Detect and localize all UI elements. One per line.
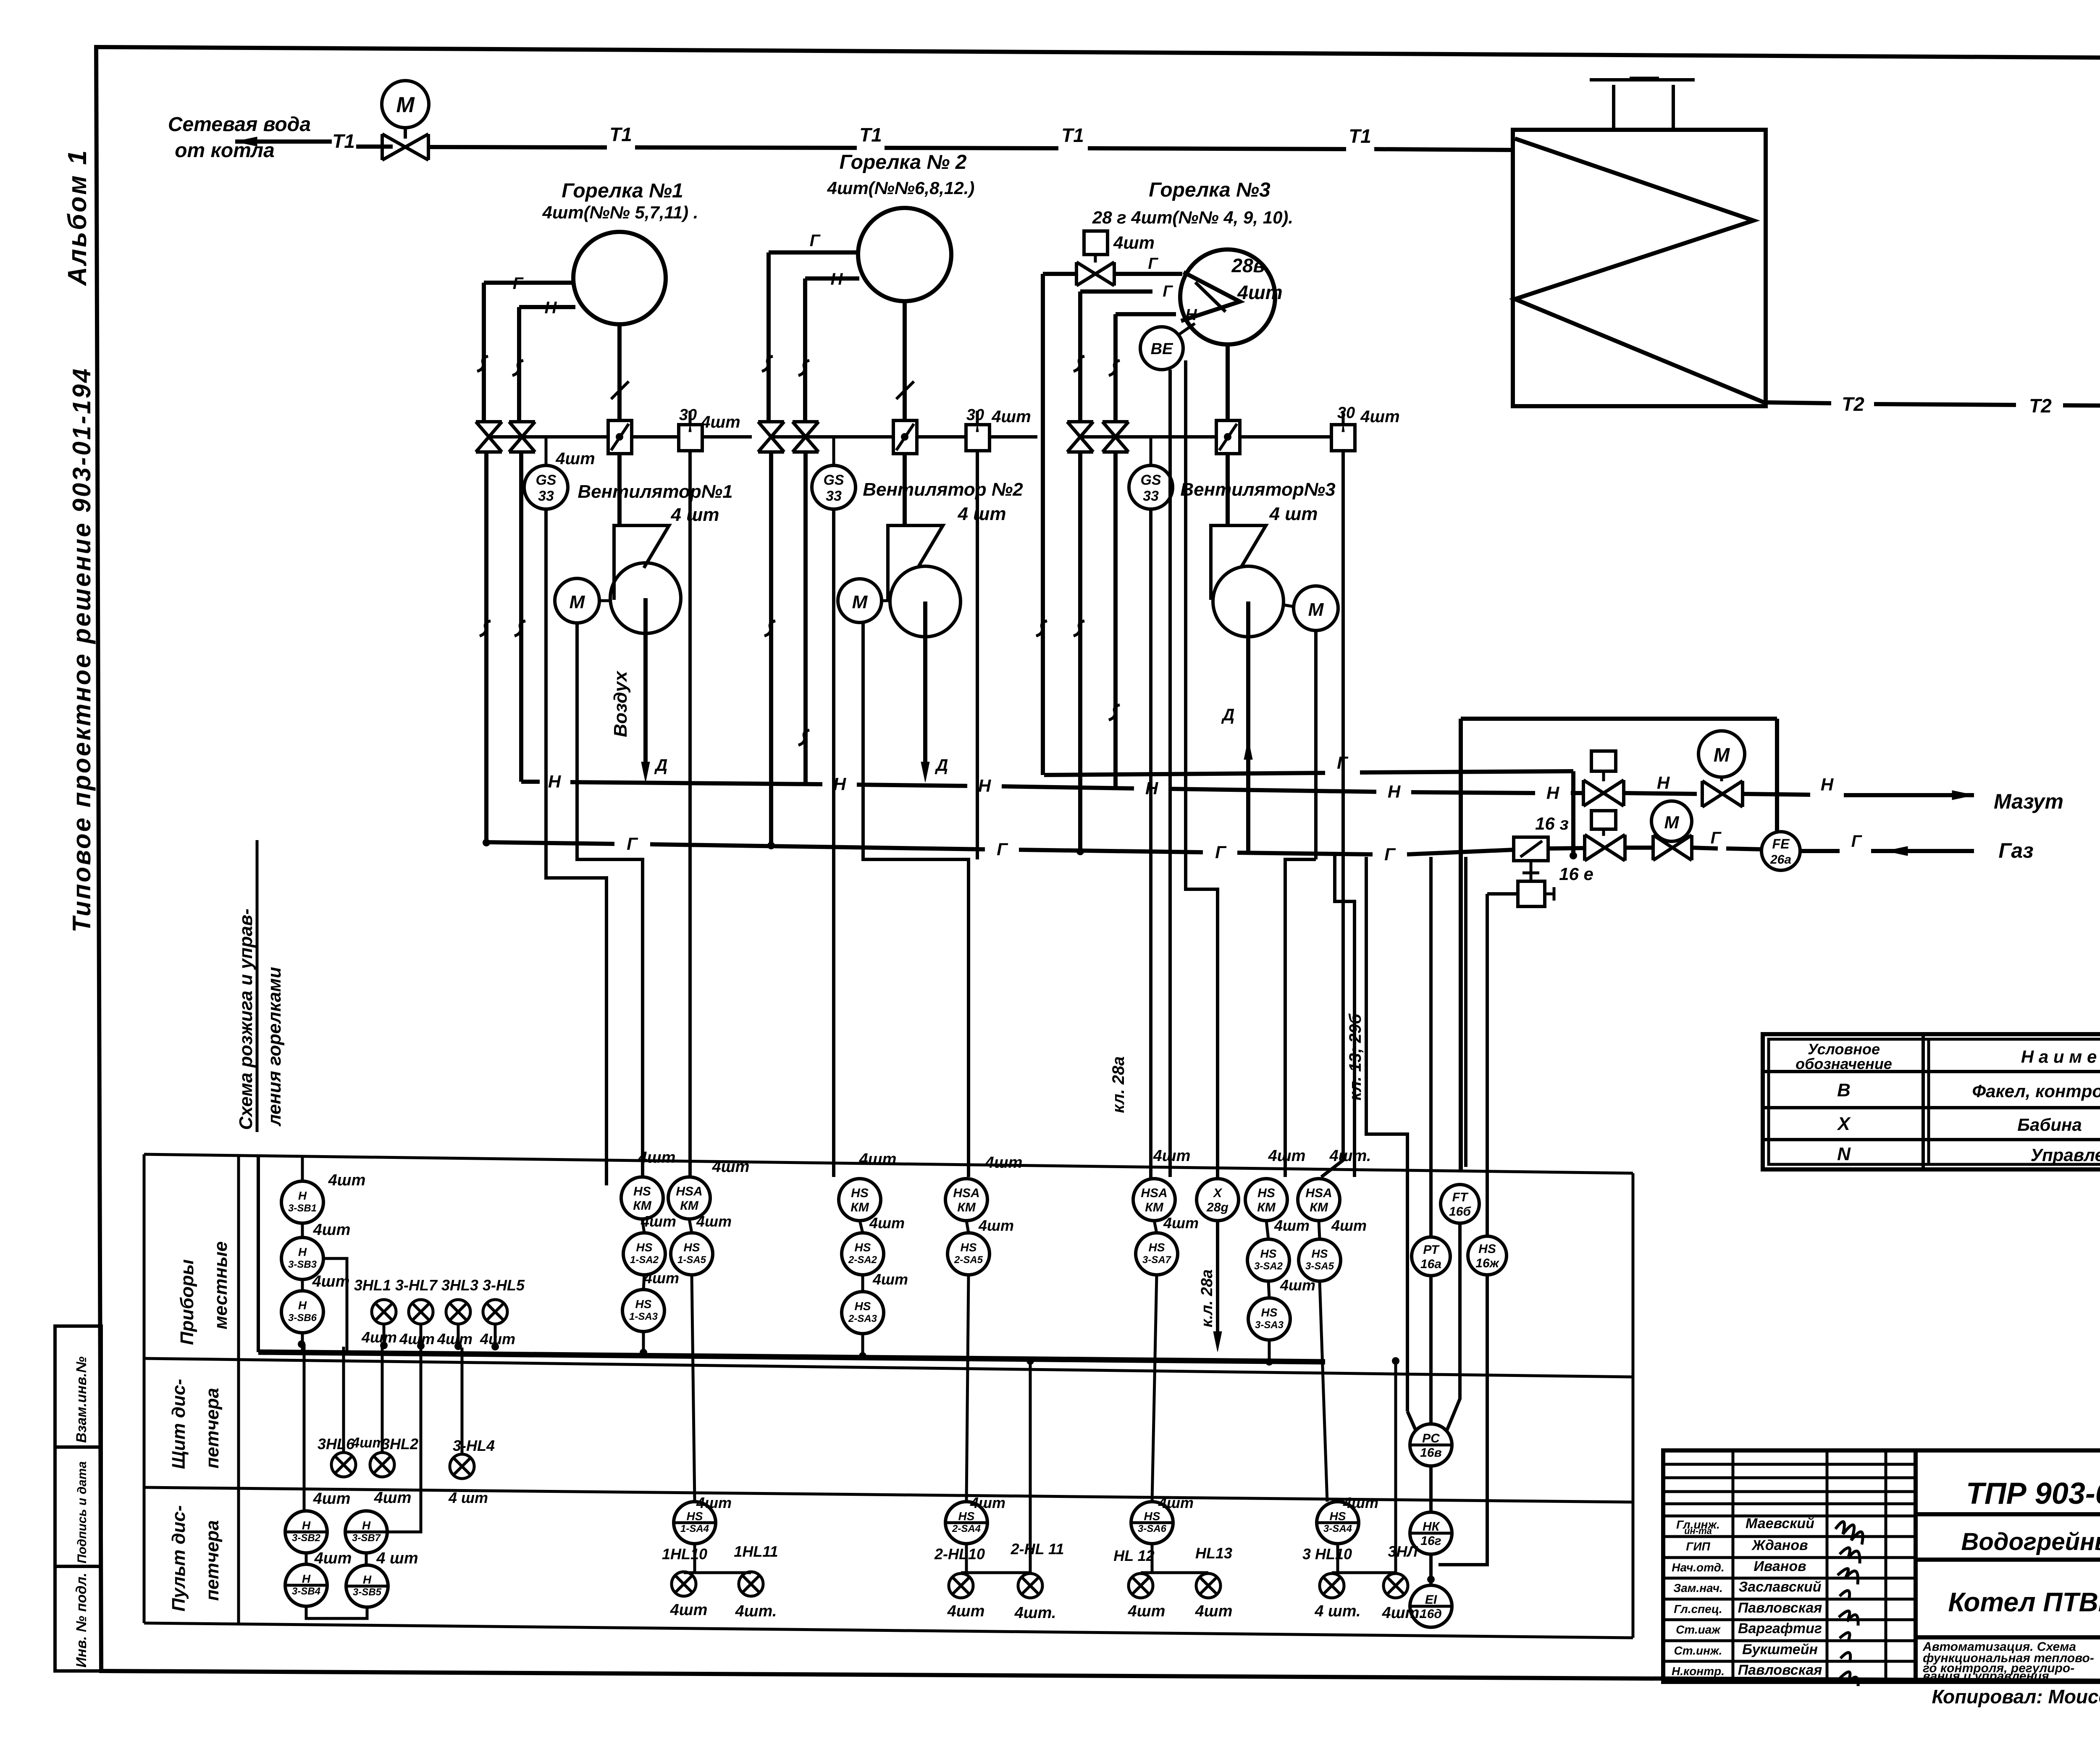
stem 16з to 16е [1530, 861, 1533, 881]
svg-text:Д: Д [1221, 706, 1235, 724]
svg-text:3HL1 3-HL7 3HL3 3-HL5: 3HL1 3-HL7 3HL3 3-HL5 [354, 1277, 525, 1294]
svg-text:GS: GS [823, 472, 844, 488]
svg-text:4шт: 4шт [313, 1221, 351, 1239]
svg-text:КМ: КМ [1145, 1200, 1163, 1214]
svg-text:Н: Н [302, 1572, 311, 1585]
svg-text:Н: Н [1821, 775, 1834, 794]
wire НК down [1429, 1554, 1433, 1585]
svg-text:КМ: КМ [850, 1200, 869, 1214]
riser box30-3 down [1321, 451, 1343, 1177]
wire valve line G1 [489, 435, 608, 439]
svg-text:2-SA2: 2-SA2 [848, 1254, 877, 1266]
svg-text:Щит дис-: Щит дис- [168, 1379, 189, 1469]
svg-text:3-SB1: 3-SB1 [288, 1203, 317, 1214]
svg-text:НS: НS [1330, 1510, 1346, 1523]
svg-text:РС: РС [1422, 1432, 1440, 1445]
circle HS 2-SA3 [842, 1292, 884, 1334]
circle BE G3 [1140, 327, 1183, 370]
fan2 air duct [923, 602, 927, 770]
circle НS 16ж [1468, 1236, 1507, 1275]
svg-text:16ж: 16ж [1475, 1256, 1499, 1270]
svg-text:Т1: Т1 [1349, 125, 1371, 147]
svg-text:4шт: 4шт [1268, 1147, 1306, 1165]
wire 3HL7col to SB7 [387, 1347, 421, 1532]
svg-text:28в: 28в [1231, 255, 1265, 276]
svg-text:НS: НS [1260, 1247, 1277, 1260]
wire riser to topvalve [1043, 272, 1076, 276]
riser box30-2 down [976, 451, 979, 859]
svg-text:4шт: 4шт [314, 1550, 352, 1567]
svg-text:30: 30 [679, 406, 697, 424]
fan3 air duct [1246, 602, 1250, 852]
lamp stems to bus [383, 1324, 386, 1346]
svg-text:4шт: 4шт [1331, 1217, 1367, 1234]
svg-text:Вентилятор№3: Вентилятор№3 [1180, 479, 1335, 500]
svg-text:4шт: 4шт [872, 1271, 908, 1288]
boiler chimney right [1672, 85, 1675, 130]
svg-text:16а: 16а [1420, 1257, 1441, 1271]
wire V5 to V6 [1625, 846, 1653, 850]
lamp 3HL2 [370, 1453, 394, 1477]
riser кл13 col [1366, 857, 1407, 1411]
svg-text:3HL6: 3HL6 [318, 1435, 355, 1453]
svg-text:Букштейн: Букштейн [1742, 1642, 1818, 1658]
svg-text:26а: 26а [1770, 853, 1791, 867]
wire SA2 down [643, 1275, 644, 1290]
svg-text:4шт: 4шт [1360, 407, 1399, 426]
riser Н2 to oil main [803, 452, 808, 785]
svg-text:4шт: 4шт [1280, 1277, 1315, 1294]
wire T1 segment 3 [635, 147, 857, 148]
wire NSAKM1 down [689, 1219, 692, 1233]
riser M3 down [1314, 630, 1318, 859]
wire BE to B3 [1179, 323, 1195, 335]
svg-text:M: M [1714, 744, 1730, 766]
svg-text:Горелка № 2: Горелка № 2 [840, 151, 967, 173]
svg-text:3-SB5: 3-SB5 [353, 1587, 382, 1598]
burner B1 stem lower [617, 454, 622, 525]
svg-text:Г: Г [1163, 283, 1173, 300]
riser Г1 upper [482, 283, 486, 423]
svg-text:В: В [1837, 1080, 1851, 1101]
circle НSА КМ G3b [1298, 1179, 1340, 1221]
svg-text:Д: Д [935, 756, 948, 775]
wire РТ down [1429, 1276, 1433, 1426]
svg-text:FE: FE [1772, 836, 1790, 851]
title divider 1 [1916, 1512, 2100, 1516]
wire Н to B1 [519, 305, 575, 309]
svg-text:НS: НS [687, 1510, 703, 1523]
svg-text:1HL11: 1HL11 [734, 1543, 778, 1560]
wire bus to 3HL4 [461, 1348, 464, 1454]
wire 3SA4 down [1336, 1544, 1339, 1573]
svg-text:Павловская: Павловская [1738, 1600, 1822, 1616]
lamp 1HL10 [672, 1572, 696, 1596]
wire РС to НК [1429, 1466, 1433, 1512]
mark on B2 stem [896, 381, 914, 399]
svg-text:3-SA2: 3-SA2 [1254, 1261, 1283, 1272]
svg-text:Управление: Управление [2031, 1145, 2100, 1165]
fan1 wedge [614, 525, 669, 600]
svg-text:Н: Н [1145, 778, 1159, 798]
riser G3-b down [1113, 314, 1118, 423]
circle HS 3-SA3 [1248, 1298, 1290, 1340]
svg-text:Копировал: Моисеева: Копировал: Моисеева [1932, 1686, 2100, 1707]
flame arrester F2 [893, 420, 917, 454]
band left edge [143, 1154, 146, 1623]
svg-text:от котла: от котла [175, 139, 275, 162]
pipe to Газ arrow [1871, 849, 1974, 853]
legend table frame [1763, 1034, 2100, 1169]
bus left riser to band top [257, 1156, 260, 1352]
circle HS 1-SA3 [622, 1290, 664, 1332]
valve V1 on T1 [382, 134, 428, 160]
svg-text:4шт: 4шт [1163, 1214, 1199, 1232]
svg-text:33: 33 [1143, 488, 1159, 504]
svg-text:Ст.инж.: Ст.инж. [1674, 1644, 1722, 1657]
svg-text:Д: Д [654, 756, 668, 775]
svg-text:4шт: 4шт [869, 1214, 905, 1232]
svg-text:3-SA4: 3-SA4 [1323, 1523, 1352, 1534]
wire 16ж join [1438, 1275, 1487, 1565]
svg-text:4шт: 4шт [696, 1213, 732, 1230]
svg-text:3-SB4: 3-SB4 [292, 1586, 320, 1597]
wire V6 to FE [1692, 848, 1718, 848]
svg-text:НSА: НSА [1305, 1186, 1332, 1200]
svg-text:вания и управления.: вания и управления. [1923, 1669, 2053, 1683]
sidebar box column [55, 1326, 101, 1671]
svg-text:Гл.спец.: Гл.спец. [1674, 1602, 1722, 1616]
svg-text:ТПР 903-01-194 АГС и АМС: ТПР 903-01-194 АГС и АМС [1966, 1477, 2100, 1510]
wire кл13 curve [1407, 1411, 1416, 1432]
valve G3-Г (vertical) [1067, 422, 1093, 452]
svg-text:Иванов: Иванов [1753, 1558, 1806, 1574]
svg-text:4шт: 4шт [638, 1149, 676, 1166]
svg-text:Г: Г [1851, 832, 1863, 851]
device 16е [1518, 881, 1545, 906]
svg-text:4шт: 4шт [991, 407, 1031, 426]
svg-text:16д: 16д [1420, 1607, 1442, 1621]
svg-text:4шт: 4шт [555, 449, 595, 468]
wire F1 to box30 [632, 435, 679, 439]
svg-text:M: M [852, 592, 868, 612]
svg-text:4 шт: 4 шт [958, 504, 1006, 524]
fan2 circle [890, 566, 961, 637]
svg-text:НS: НS [1312, 1247, 1328, 1260]
circle НS КМ G3 [1245, 1179, 1287, 1221]
sidebar divider 1 [55, 1445, 101, 1449]
circle Н 3-SB4 [285, 1564, 327, 1606]
svg-text:КМ: КМ [1310, 1200, 1328, 1214]
circle НS КМ G2 [839, 1179, 881, 1221]
svg-text:Мазут: Мазут [1994, 790, 2063, 813]
riser M3 jog [1285, 859, 1316, 882]
riser 163 col [1335, 855, 1354, 1177]
motor M1 circle [382, 81, 429, 128]
circle HS 2-SA5 [948, 1233, 990, 1275]
svg-text:Н.контр.: Н.контр. [1672, 1665, 1725, 1678]
gas valve V6 (motor) [1653, 835, 1692, 860]
svg-text:4шт: 4шт [978, 1217, 1014, 1234]
svg-text:Т1: Т1 [1061, 124, 1084, 146]
burner B1 stem [617, 324, 622, 420]
riser GS3 down [1149, 509, 1152, 1179]
svg-text:Г: Г [1148, 255, 1158, 273]
wire valve line G2 [771, 435, 893, 439]
svg-text:2-SA4: 2-SA4 [952, 1523, 981, 1534]
valve G2-Г (vertical) [758, 422, 784, 452]
svg-text:M: M [570, 592, 585, 612]
svg-text:обозначение: обозначение [1795, 1055, 1892, 1072]
svg-text:4шт: 4шт [312, 1273, 350, 1290]
svg-text:Т1: Т1 [332, 130, 355, 152]
svg-text:Г: Г [1384, 844, 1396, 864]
svg-text:4шт.: 4шт. [1329, 1147, 1371, 1165]
svg-text:кл. 13; 29б: кл. 13; 29б [1346, 1013, 1365, 1101]
svg-text:КМ: КМ [680, 1199, 698, 1213]
svg-text:Воздух: Воздух [610, 670, 631, 737]
band top line [144, 1154, 1633, 1173]
svg-text:Н: Н [548, 772, 562, 791]
svg-text:НS: НS [635, 1298, 652, 1311]
svg-text:НS: НS [958, 1510, 975, 1523]
title block sign divider [1914, 1450, 1918, 1682]
svg-text:НS: НS [684, 1241, 700, 1254]
lamp 3HL4 [450, 1454, 474, 1479]
circle GS-33 G3 [1129, 465, 1173, 509]
lamp 2HL10 [949, 1574, 973, 1598]
svg-text:Типовое проектное решение 9: Типовое проектное решение 903-01-194 [68, 367, 96, 933]
wire to FE [1726, 848, 1763, 849]
wire Г2 to B3 [1080, 289, 1152, 294]
svg-text:петчера: петчера [202, 1388, 223, 1468]
wire Г to B2 [769, 250, 858, 255]
band divider 1 [144, 1358, 1633, 1377]
svg-text:3HL2: 3HL2 [381, 1435, 418, 1453]
svg-text:Горелка №3: Горелка №3 [1149, 179, 1270, 201]
svg-text:Г: Г [997, 839, 1008, 859]
svg-text:ЕІ: ЕІ [1425, 1593, 1437, 1607]
wire 2SA2 down [861, 1275, 864, 1292]
wire lamp pair G1 [684, 1571, 751, 1574]
svg-text:Х: Х [1213, 1186, 1223, 1200]
wire FE right [1800, 849, 1840, 853]
wire SB3-SB6 [301, 1279, 304, 1291]
gas branch Г upper [1044, 773, 1325, 775]
circle НSА КМ G1 [668, 1177, 710, 1219]
riser Г2 upper [766, 252, 771, 423]
circle HS 1-SA4 [674, 1502, 716, 1544]
circle GS-33 G1 [524, 465, 568, 509]
svg-text:Маевский: Маевский [1746, 1516, 1814, 1531]
wire M3-fan3 [1284, 605, 1294, 607]
svg-text:4 шт: 4 шт [376, 1550, 418, 1567]
sidebar divider 2 [55, 1565, 101, 1568]
svg-text:НS: НS [855, 1300, 871, 1313]
circle HS 2-SA4 [945, 1502, 987, 1544]
wire box30 right G1 [702, 435, 752, 439]
svg-text:3-SA3: 3-SA3 [1255, 1319, 1284, 1331]
riser Г3 to gas main [1078, 452, 1082, 851]
band bottom line [144, 1623, 1633, 1638]
wire 3SA3 to bus [1268, 1340, 1271, 1360]
riser box30-1 down [688, 451, 692, 1177]
svg-text:НS: НS [636, 1241, 653, 1254]
circle HS 3-SA7 [1136, 1233, 1178, 1275]
wire T1 segment 2 [428, 147, 607, 147]
lamp 3HL10 [1320, 1574, 1344, 1598]
svg-text:Вентилятор№1: Вентилятор№1 [577, 481, 732, 502]
svg-text:Г: Г [1711, 829, 1722, 847]
stem GS3 up [1150, 437, 1152, 465]
boiler chimney cap [1590, 78, 1695, 81]
circle HS 1-SA5 [671, 1233, 713, 1275]
svg-text:Заславский: Заславский [1738, 1579, 1821, 1595]
junction dots [767, 842, 775, 849]
pipe T1 from boiler: arrow [235, 139, 332, 144]
svg-text:Н: Н [978, 776, 992, 796]
svg-text:Т1: Т1 [859, 124, 882, 146]
lamp 3HL6 [331, 1453, 356, 1477]
burner B2 circle [858, 208, 951, 301]
title block outer [1663, 1450, 2100, 1682]
circle HS 3-SA2 [1247, 1239, 1289, 1281]
wire SB6 down [301, 1333, 304, 1353]
valve stem M1 [404, 128, 407, 139]
svg-text:Г: Г [1337, 753, 1349, 772]
device 16з [1514, 837, 1548, 861]
svg-text:КМ: КМ [957, 1200, 976, 1214]
svg-text:Н: Н [831, 270, 843, 289]
svg-text:3-SB7: 3-SB7 [352, 1532, 381, 1544]
svg-text:Пульт дис-: Пульт дис- [168, 1505, 189, 1611]
svg-text:4шт: 4шт [985, 1154, 1023, 1172]
svg-text:Водогрейные котлы типа ПТВМ: Водогрейные котлы типа ПТВМ [1961, 1528, 2100, 1555]
svg-text:4шт: 4шт [643, 1269, 679, 1287]
svg-text:4шт: 4шт [351, 1435, 385, 1451]
svg-text:НS: НS [1149, 1241, 1165, 1254]
fan2 wedge [888, 525, 943, 600]
wire SB2-SB4 [305, 1553, 308, 1564]
riser 16ж col [1486, 894, 1489, 1237]
boiler chimney left [1612, 85, 1615, 130]
svg-text:к.л. 28а: к.л. 28а [1198, 1269, 1216, 1327]
gas valve V5 [1585, 835, 1625, 861]
mark on B1 stem [611, 381, 629, 399]
riser GS2 down [832, 509, 835, 1177]
circle HS 3-SA4 [1317, 1502, 1359, 1544]
wire NSAKM3 down [1154, 1221, 1157, 1233]
svg-text:16б: 16б [1449, 1205, 1471, 1219]
riser Г1 to gas main [484, 452, 488, 842]
wire Г to B1 [484, 281, 574, 285]
assembly box left edge [1459, 719, 1463, 1172]
svg-text:Инв. № подл.: Инв. № подл. [73, 1573, 89, 1668]
valve stem M4 [1720, 777, 1723, 781]
pipe T2 from boiler [1766, 402, 1831, 403]
gas main Г [486, 842, 614, 844]
box 30 G2 [966, 425, 990, 451]
wire bus to 3HL2 [381, 1347, 384, 1453]
svg-text:НК: НК [1423, 1520, 1441, 1534]
svg-text:4шт: 4шт [1195, 1602, 1233, 1620]
svg-text:Зам.нач.: Зам.нач. [1673, 1581, 1723, 1595]
oil valve V3 [1583, 780, 1624, 806]
stem GS1 up [545, 437, 548, 465]
svg-text:3-SB2: 3-SB2 [292, 1532, 321, 1544]
wire SB7-SB5 [365, 1553, 368, 1565]
wire 3SA5 down to pult [1320, 1281, 1327, 1502]
svg-text:Жданов: Жданов [1751, 1537, 1808, 1553]
svg-text:Н: Н [302, 1519, 311, 1532]
gas branch drop [1571, 771, 1575, 856]
title divider 2 [1916, 1558, 2100, 1562]
air arrow G1 [641, 762, 650, 782]
wire 2HL11 up to bus [1029, 1573, 1032, 1574]
svg-text:Т2: Т2 [2029, 395, 2052, 417]
note underline [256, 840, 259, 1132]
svg-text:4шт(№№6,8,12.): 4шт(№№6,8,12.) [827, 178, 975, 198]
svg-text:4шт: 4шт [1128, 1602, 1165, 1620]
wire 3SA7 down to 3SA6 [1152, 1275, 1157, 1502]
svg-text:местные: местные [210, 1241, 231, 1329]
svg-text:4шт: 4шт [947, 1602, 985, 1620]
wire 3SA6 down [1151, 1544, 1154, 1573]
riser РТ col [1429, 857, 1433, 1238]
band divider 2 [144, 1487, 1633, 1502]
wire NSAKM2 down [966, 1221, 969, 1233]
circle FE 26a [1761, 832, 1800, 870]
circle НSА КМ G2 [945, 1179, 987, 1221]
svg-text:Н: Н [298, 1189, 307, 1202]
wire V3 to V4 [1624, 793, 1697, 794]
oil valve V3 actuator [1591, 751, 1616, 771]
wire T1 segment 5 [1088, 148, 1346, 149]
svg-text:FТ: FТ [1452, 1190, 1469, 1204]
signal bus (heavy) [258, 1352, 1325, 1362]
svg-text:M: M [396, 93, 415, 117]
signatures scribble [1835, 1522, 1863, 1686]
svg-text:4шт.: 4шт. [1014, 1604, 1056, 1622]
oil valve V4 (motor) [1702, 781, 1743, 807]
wire 2SA3 to bus [861, 1334, 864, 1354]
wire 3HL11 up to bus [1394, 1361, 1397, 1573]
svg-text:30: 30 [1337, 404, 1355, 422]
riser to 3SB1 [301, 1156, 304, 1181]
svg-text:2-SA3: 2-SA3 [848, 1313, 877, 1324]
svg-text:Газ: Газ [1998, 839, 2033, 862]
riser 28a-2 [1186, 360, 1218, 1179]
gas valve V5 actuator [1591, 811, 1616, 829]
svg-text:Ст.иаж: Ст.иаж [1676, 1623, 1721, 1636]
svg-text:Н: Н [833, 774, 847, 794]
fan3 wedge [1211, 525, 1266, 600]
svg-text:КМ: КМ [1257, 1200, 1276, 1214]
fan3 motor M [1294, 586, 1338, 630]
svg-text:Н: Н [1388, 782, 1401, 801]
wire SA3 to bus [642, 1332, 645, 1351]
lamp 1HL11 [739, 1572, 763, 1596]
riser FT col [1464, 857, 1467, 1167]
valve G3 top (gas) [1076, 262, 1114, 286]
circle HS 2-SA2 [842, 1233, 884, 1275]
riser Г2 to gas main [769, 452, 773, 846]
lamp 2HL11 [1018, 1574, 1042, 1598]
svg-text:4шт: 4шт [640, 1213, 676, 1230]
svg-text:НS: НS [851, 1186, 869, 1200]
svg-text:Факел, контрольный электрод: Факел, контрольный электрод [1972, 1081, 2100, 1101]
riser fan3 col down [1284, 882, 1287, 1177]
